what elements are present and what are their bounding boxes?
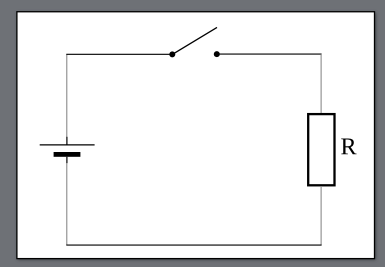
wire — [66, 163, 68, 245]
wire: right vertical above resistor — [320, 54, 322, 114]
battery B1: bottom lead stub — [66, 157, 68, 163]
switch S1: lever arm — [172, 27, 217, 54]
battery B1: short thick plate (-) — [54, 152, 81, 157]
switch S1: left contact node — [169, 51, 175, 57]
battery B1: long plate (+) — [40, 144, 95, 146]
wire: bottom horizontal — [66, 244, 321, 246]
wire: top horizontal left of switch — [66, 53, 172, 55]
wire: top horizontal right of switch — [217, 53, 322, 55]
wire: right vertical below resistor — [320, 187, 322, 245]
resistor R: value label "R" — [341, 139, 356, 155]
switch S1: right contact node — [214, 51, 220, 57]
resistor R: body box — [308, 114, 334, 185]
battery B1: top lead stub — [66, 137, 68, 145]
wire: left vertical (battery branch) — [66, 54, 68, 137]
